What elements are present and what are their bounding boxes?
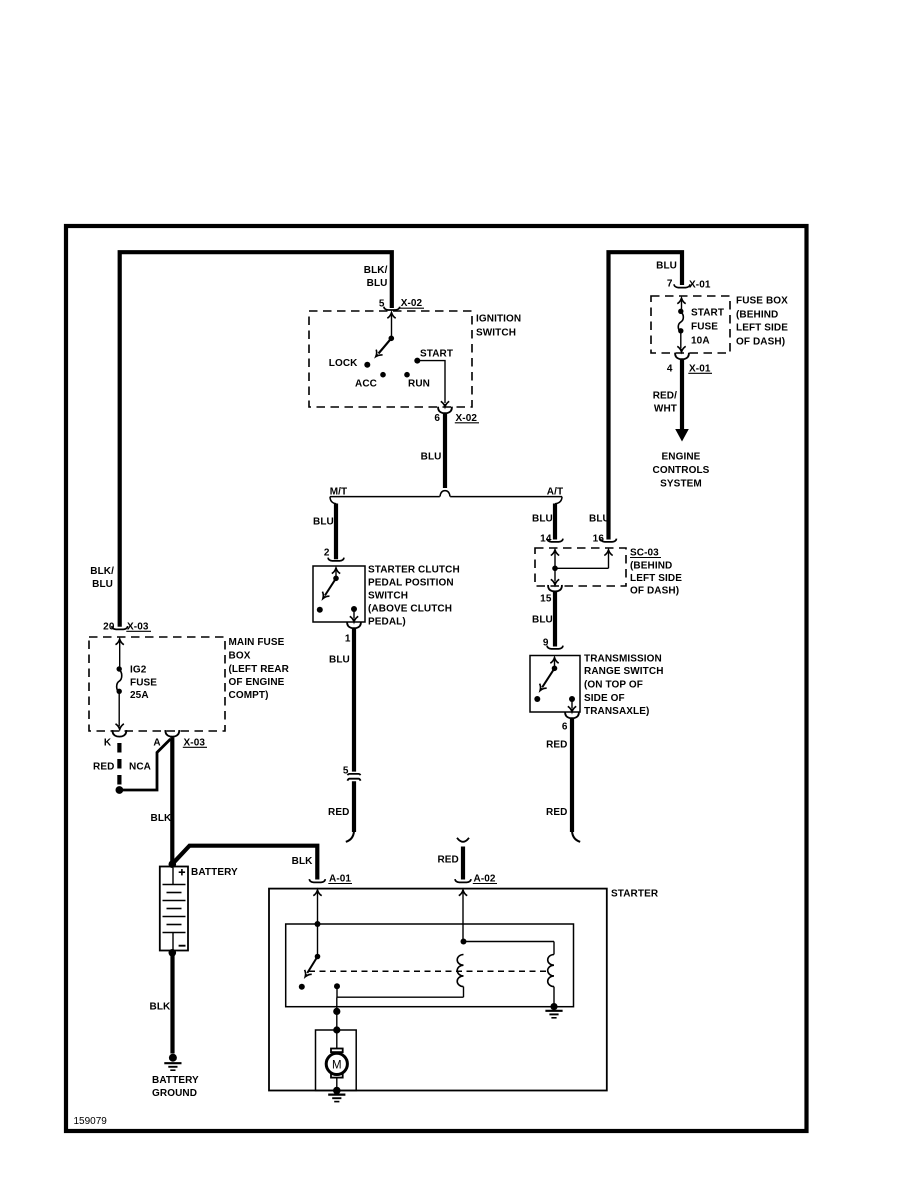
starter A-02 entry arrow and solenoid feed: [459, 890, 554, 954]
label IG2 FUSE 25A: [130, 665, 157, 702]
svg-text:ACC: ACC: [355, 379, 377, 390]
svg-text:RED: RED: [546, 807, 567, 818]
svg-text:X-01: X-01: [689, 280, 711, 291]
wire BLU from clutch switch pin 1: [329, 629, 354, 772]
starter solenoid inner box: [286, 924, 574, 1007]
svg-text:CONTROLS: CONTROLS: [653, 465, 710, 476]
svg-text:LOCK: LOCK: [329, 358, 358, 369]
svg-text:TRANSAXLE): TRANSAXLE): [584, 706, 649, 717]
svg-text:LEFT SIDE: LEFT SIDE: [736, 323, 788, 334]
pull-in coil L1: [457, 955, 463, 998]
clutch switch arm: [319, 578, 336, 601]
connector A-01: [309, 874, 352, 885]
hold-in coil L2: [548, 955, 554, 1007]
range switch right contact to pin 6: [568, 696, 576, 712]
label MAIN FUSE BOX (LEFT REAR OF ENGINE COMPT): [229, 637, 290, 701]
splice SC-03 dashed box: [535, 548, 626, 586]
label IGNITION SWITCH: [476, 314, 521, 339]
svg-text:MAIN FUSE: MAIN FUSE: [229, 637, 285, 648]
starter motor sub-box: [316, 1030, 357, 1091]
svg-text:RUN: RUN: [408, 379, 430, 390]
svg-text:A-01: A-01: [329, 874, 351, 885]
svg-text:5: 5: [343, 766, 349, 777]
clutch switch left contact: [317, 607, 323, 613]
starter switch fixed contact: [299, 984, 305, 990]
svg-text:FUSE: FUSE: [130, 678, 157, 689]
svg-text:BATTERY: BATTERY: [152, 1075, 199, 1086]
svg-text:BLU: BLU: [421, 452, 442, 463]
svg-text:20: 20: [103, 622, 115, 633]
wire NCA loop to pin A: [123, 739, 171, 790]
svg-text:OF ENGINE: OF ENGINE: [229, 677, 285, 688]
starter motor M: [326, 1030, 347, 1091]
svg-text:(ON TOP OF: (ON TOP OF: [584, 680, 643, 691]
svg-text:BLU: BLU: [92, 579, 113, 590]
svg-text:SWITCH: SWITCH: [476, 328, 516, 339]
svg-text:25A: 25A: [130, 690, 149, 701]
fuse IG2 FUSE 25A: [116, 639, 124, 729]
starter switch arm: [302, 957, 318, 980]
label BLK/BLU at main fuse box: [90, 566, 114, 590]
in-line connector 5: [343, 766, 361, 781]
svg-text:RED: RED: [437, 855, 458, 866]
contact START and wire to pin 6: [414, 349, 453, 407]
connector pin 6: [562, 712, 579, 733]
connector pin 7 X-01: [667, 279, 711, 291]
svg-text:NCA: NCA: [129, 761, 151, 772]
wire RED M/T to starter: [328, 781, 354, 842]
wire BLU M/T branch: [313, 504, 336, 560]
svg-text:A/T: A/T: [547, 487, 563, 498]
starter switch output contact and junction: [334, 983, 464, 997]
connector pin 9: [543, 638, 563, 649]
starter motor ground: [328, 1087, 345, 1102]
label TRANSMISSION RANGE SWITCH: [584, 654, 664, 718]
svg-text:TRANSMISSION: TRANSMISSION: [584, 654, 662, 665]
svg-text:6: 6: [434, 413, 440, 424]
label FUSE BOX (BEHIND LEFT SIDE OF DASH): [736, 296, 788, 348]
label SC-03 (BEHIND LEFT SIDE OF DASH): [630, 548, 682, 597]
svg-text:BLK/: BLK/: [364, 265, 388, 276]
svg-text:RANGE SWITCH: RANGE SWITCH: [584, 666, 664, 677]
svg-text:15: 15: [540, 594, 552, 605]
svg-text:BLU: BLU: [532, 615, 553, 626]
starter solenoid ground: [545, 1003, 562, 1018]
connector pin 20 X-03: [103, 622, 151, 633]
svg-text:(LEFT REAR: (LEFT REAR: [229, 664, 290, 675]
svg-text:7: 7: [667, 279, 673, 290]
wire BLK battery negative to ground: [150, 955, 173, 1054]
ignition switch rotor pivot: [389, 336, 395, 342]
svg-text:1: 1: [345, 634, 351, 645]
branch line M/T - A/T with centre hop: [330, 491, 562, 504]
svg-text:FUSE BOX: FUSE BOX: [736, 296, 788, 307]
svg-text:BLU: BLU: [367, 278, 388, 289]
svg-text:START: START: [691, 308, 724, 319]
svg-text:BLU: BLU: [532, 514, 553, 525]
fuse START FUSE 10A: [677, 298, 685, 352]
svg-text:RED: RED: [93, 761, 114, 772]
wire BLU from ignition pin 6: [421, 414, 445, 488]
contact LOCK: [329, 358, 371, 369]
wire to starter motor: [333, 997, 340, 1033]
connector pin A X-03: [153, 730, 207, 748]
starter A-01 entry arrow and feed: [313, 890, 321, 959]
range switch arm: [537, 668, 555, 693]
svg-text:9: 9: [543, 638, 549, 649]
svg-text:RED: RED: [546, 740, 567, 751]
main fuse box dashed box: [89, 637, 225, 731]
label ENGINE CONTROLS SYSTEM: [653, 452, 710, 490]
connector pin 15: [540, 585, 562, 605]
range switch entry arrow and pivot: [550, 658, 558, 672]
connector pin 1: [345, 622, 361, 645]
svg-text:(BEHIND: (BEHIND: [736, 310, 778, 321]
svg-text:BOX: BOX: [229, 651, 251, 662]
svg-text:BLU: BLU: [656, 261, 677, 272]
svg-text:LEFT SIDE: LEFT SIDE: [630, 573, 682, 584]
svg-text:(BEHIND: (BEHIND: [630, 561, 672, 572]
wire RED merge to connector A-02: [437, 838, 469, 880]
svg-text:BLK: BLK: [150, 1002, 172, 1013]
label BLK/BLU at ignition switch: [364, 265, 388, 289]
transmission range switch S2 box: [530, 656, 580, 713]
ignition switch U1 dashed box: [309, 311, 472, 407]
label STARTER CLUTCH PEDAL POSITION SWITCH: [368, 565, 460, 628]
svg-text:RED/: RED/: [653, 391, 677, 402]
wire BLU A/T branch: [532, 504, 555, 540]
connector pin 14: [540, 534, 563, 545]
svg-text:4: 4: [667, 364, 673, 375]
contact ACC: [355, 372, 386, 390]
svg-text:PEDAL POSITION: PEDAL POSITION: [368, 578, 454, 589]
svg-text:SIDE OF: SIDE OF: [584, 693, 625, 704]
SC-03 internal tie: [551, 550, 613, 585]
ignition switch pin 5 entry arrow: [387, 313, 395, 338]
wire BLK from pin A to battery positive: [151, 737, 173, 862]
svg-text:SYSTEM: SYSTEM: [660, 479, 702, 490]
svg-text:BLU: BLU: [313, 517, 334, 528]
svg-text:WHT: WHT: [654, 404, 677, 415]
battery B1: [160, 860, 188, 956]
connector pin K: [104, 730, 126, 748]
svg-text:BLK/: BLK/: [90, 566, 114, 577]
connector pin 5 X-02: [379, 298, 424, 310]
wire RED from range switch to starter: [546, 719, 580, 842]
ignition switch arm: [373, 338, 392, 359]
wire RED/WHT to engine controls system: [653, 360, 689, 442]
svg-text:BLK: BLK: [151, 813, 173, 824]
svg-text:2: 2: [324, 548, 330, 559]
svg-text:K: K: [104, 738, 112, 749]
connector pin 16: [593, 534, 617, 545]
label START FUSE 10A: [691, 308, 724, 347]
label BATTERY GROUND: [152, 1075, 199, 1099]
contact RUN: [404, 372, 430, 390]
svg-text:OF DASH): OF DASH): [736, 337, 785, 348]
svg-text:RED: RED: [328, 807, 349, 818]
svg-text:16: 16: [593, 534, 605, 545]
battery ground: [164, 1054, 181, 1071]
svg-text:M: M: [332, 1059, 342, 1071]
svg-text:A-02: A-02: [474, 874, 496, 885]
wire BLK/BLU from ignition switch pin 5 to main fuse box pin 20: [120, 252, 392, 627]
svg-text:159079: 159079: [74, 1116, 108, 1127]
svg-text:IG2: IG2: [130, 665, 147, 676]
connector pin 2: [324, 548, 344, 561]
svg-text:PEDAL): PEDAL): [368, 617, 406, 628]
svg-text:M/T: M/T: [330, 487, 348, 498]
svg-text:A: A: [153, 738, 160, 749]
connector pin 4 X-01: [667, 353, 712, 375]
svg-text:COMPT): COMPT): [229, 690, 269, 701]
range switch left contact: [534, 696, 540, 702]
clutch switch entry arrow and pivot: [332, 568, 340, 581]
solenoid linkage dashed line: [309, 970, 546, 972]
svg-text:ENGINE: ENGINE: [662, 452, 701, 463]
svg-text:BLU: BLU: [329, 655, 350, 666]
svg-text:SC-03: SC-03: [630, 548, 659, 559]
starter M1 outer box: [269, 889, 607, 1091]
svg-text:5: 5: [379, 299, 385, 310]
connector A-02: [455, 874, 497, 885]
svg-text:STARTER CLUTCH: STARTER CLUTCH: [368, 565, 460, 576]
wire RED NCA stub from pin K: [93, 743, 151, 794]
wire BLK battery positive to starter connector A-01: [172, 846, 317, 880]
svg-text:BLK: BLK: [292, 856, 314, 867]
svg-text:BATTERY: BATTERY: [191, 867, 238, 878]
wire BLU feed to fuse box pin 7: [609, 252, 683, 539]
svg-text:FUSE: FUSE: [691, 322, 718, 333]
svg-text:6: 6: [562, 722, 568, 733]
starter clutch pedal position switch S1 box: [313, 566, 365, 622]
fuse box dashed box: [651, 296, 730, 353]
connector pin 6 X-02: [434, 407, 479, 424]
svg-text:OF DASH): OF DASH): [630, 586, 679, 597]
svg-text:STARTER: STARTER: [611, 889, 659, 900]
svg-text:(ABOVE CLUTCH: (ABOVE CLUTCH: [368, 604, 452, 615]
svg-text:SWITCH: SWITCH: [368, 591, 408, 602]
svg-text:X-02: X-02: [401, 298, 423, 309]
svg-text:10A: 10A: [691, 336, 710, 347]
wire BLU SC-03 to transmission range switch: [532, 592, 555, 647]
svg-text:GROUND: GROUND: [152, 1088, 197, 1099]
svg-text:IGNITION: IGNITION: [476, 314, 521, 325]
svg-text:START: START: [420, 349, 453, 360]
clutch switch right contact to pin 1: [350, 606, 358, 622]
svg-text:14: 14: [540, 534, 552, 545]
